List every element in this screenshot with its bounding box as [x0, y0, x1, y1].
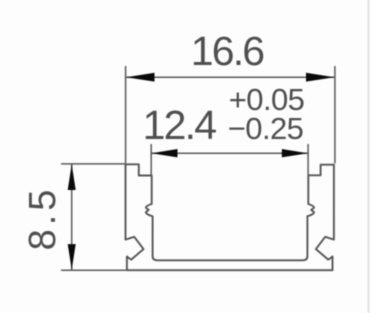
arrowhead 16.6 left: [126, 73, 155, 82]
extension line 8.5 bottom: [61, 269, 128, 271]
arrowhead 16.6 right: [306, 73, 335, 82]
svg-text:16.6: 16.6: [191, 28, 264, 74]
arrowhead 12.4 right: [282, 149, 308, 157]
dim line 16.6: [126, 76, 335, 78]
svg-text:12.4: 12.4: [143, 102, 217, 148]
arrowhead 8.5 top: [68, 164, 76, 190]
arrowhead 8.5 bottom: [68, 244, 76, 270]
svg-text:−0.25: −0.25: [228, 111, 303, 146]
photo frame edge right: [368, 0, 370, 313]
extension line 16.6 left: [125, 66, 127, 163]
extension line 12.4 left: [150, 144, 152, 175]
dim line 12.4: [151, 152, 308, 154]
extension line 12.4 right: [307, 144, 309, 175]
svg-text:8.5: 8.5: [22, 186, 64, 251]
extension line 8.5 top: [61, 163, 126, 165]
dim line 8.5: [71, 164, 73, 270]
arrowhead 12.4 left: [151, 149, 177, 157]
extension line 16.6 right: [334, 66, 336, 164]
aluminium profile cross-section outline: [126, 164, 334, 270]
